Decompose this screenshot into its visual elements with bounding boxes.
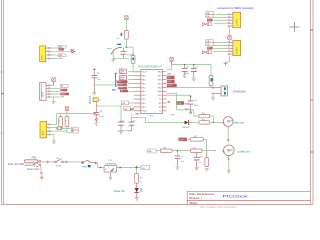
svg-text:1u: 1u bbox=[195, 70, 197, 72]
svg-text:Sheet: /: Sheet: / bbox=[189, 196, 202, 200]
pin row 11 bbox=[134, 110, 141, 112]
net label box ALM bbox=[71, 127, 78, 130]
wire OSCa to IC bbox=[128, 102, 134, 104]
svg-text:OSC: OSC bbox=[135, 113, 140, 115]
ground below C1 C2 bbox=[119, 131, 123, 134]
svg-text:DIG2: DIG2 bbox=[167, 81, 171, 83]
wire rail to R11 bbox=[66, 114, 68, 117]
inductor L1 bbox=[93, 98, 98, 102]
pin row 10 bbox=[134, 106, 141, 108]
ground below C6 bbox=[94, 123, 98, 126]
pin 2 of X2 bbox=[47, 127, 49, 129]
+5V cross bbox=[224, 62, 228, 66]
net label (dark) SEG2 bbox=[207, 47, 213, 50]
title block bbox=[187, 190, 310, 192]
pin 3 of LS1 bbox=[46, 90, 49, 92]
svg-text:VDD: VDD bbox=[157, 95, 162, 97]
wire C6 down bbox=[95, 115, 97, 119]
power flag PWR1 bbox=[228, 36, 231, 40]
rail corner down bbox=[210, 65, 212, 76]
svg-text:PICclock: PICclock bbox=[223, 194, 249, 198]
crystal Y1 box B bbox=[120, 76, 127, 80]
net label row A bbox=[117, 80, 128, 83]
dark net label MODE bbox=[176, 101, 184, 105]
wire F1 to reg bbox=[91, 162, 95, 164]
net label (dark) SEG1 bbox=[207, 19, 213, 22]
svg-text:connectors for SMD1 (example): connectors for SMD1 (example) bbox=[217, 6, 254, 10]
ground below C5 bbox=[92, 93, 96, 96]
svg-text:BZ+: BZ+ bbox=[61, 86, 64, 88]
pin row 5 bbox=[134, 86, 141, 88]
wire R11 bottom bbox=[66, 127, 68, 133]
svg-text:DIG1: DIG1 bbox=[167, 77, 171, 79]
svg-text:MODE: MODE bbox=[177, 103, 182, 105]
pin 1 of SV1 bbox=[46, 47, 49, 49]
svg-text:in: in bbox=[105, 169, 106, 171]
capacitor C7 bbox=[177, 151, 179, 156]
svg-text:to bell, out: to bell, out bbox=[238, 149, 250, 153]
resistor R5 bbox=[160, 149, 172, 152]
net arrow GND bbox=[72, 50, 75, 53]
wire B1 down bbox=[227, 126, 229, 128]
DC jack X1 bbox=[25, 160, 38, 163]
svg-text:o: o bbox=[108, 168, 109, 170]
ground below R12 bbox=[205, 168, 209, 171]
net label box OSCb bbox=[124, 107, 131, 111]
wire cap to crystal bbox=[94, 84, 118, 86]
wire R3 to corner bbox=[210, 115, 214, 117]
pin 5 of LS1 bbox=[46, 96, 49, 98]
gate wire bbox=[166, 87, 212, 89]
buzzer out B1 (circle) bbox=[223, 117, 233, 127]
pull-up rail wire bbox=[57, 113, 97, 115]
wire to R9 bbox=[136, 167, 138, 173]
svg-text:SW4: SW4 bbox=[59, 58, 62, 60]
sheet border frame bbox=[1, 0, 3, 205]
pin 3 of SV1 bbox=[46, 54, 49, 56]
wire R10 bottom bbox=[60, 127, 62, 129]
Q1 source pin bbox=[212, 92, 215, 95]
wire between headers bbox=[228, 28, 230, 36]
svg-text:File: Reference: File: Reference bbox=[189, 192, 215, 196]
jack ground bbox=[40, 166, 42, 168]
svg-text:rb: rb bbox=[120, 88, 122, 90]
pin row 7 bbox=[134, 94, 141, 96]
svg-text:reset: reset bbox=[107, 47, 112, 50]
connector LS1 (outlined header) bbox=[40, 83, 47, 101]
resistor R6 bbox=[190, 138, 203, 141]
wire OSCb to IC bbox=[130, 108, 134, 110]
net label box ALM2 bbox=[71, 130, 78, 133]
power flag PWR4 bbox=[170, 57, 173, 61]
wire pin2 row bbox=[50, 127, 57, 129]
net label box LD1 bbox=[206, 12, 213, 15]
via diamond 2 bbox=[189, 111, 191, 113]
wire label zone down bbox=[120, 105, 122, 122]
resistor R12 bbox=[206, 151, 208, 158]
net label BZC (dark wide) bbox=[60, 93, 69, 96]
svg-text:BZ-: BZ- bbox=[61, 90, 64, 92]
svg-text:Power ON: Power ON bbox=[114, 190, 125, 193]
svg-text:OS2: OS2 bbox=[124, 109, 127, 111]
pin row 1 bbox=[134, 71, 141, 73]
resistor R9 bbox=[135, 173, 139, 183]
svg-text:KA78M05B: KA78M05B bbox=[105, 162, 117, 165]
wire IC vss bend bbox=[131, 114, 133, 118]
frame tick marks bbox=[2, 93, 4, 95]
wire jack to S2 bbox=[41, 161, 55, 163]
capacitor C9 bbox=[193, 65, 195, 69]
pin row 3 bbox=[134, 79, 141, 81]
svg-text:o: o bbox=[155, 111, 156, 113]
pin 3 of X2 bbox=[47, 130, 49, 132]
ground below C7 bbox=[176, 167, 180, 170]
wire filter to IC nets bbox=[96, 105, 121, 107]
ground below D3 bbox=[135, 198, 139, 201]
svg-text:DISP2: DISP2 bbox=[237, 46, 239, 53]
wire C2 top bbox=[131, 118, 133, 122]
wire pin3 to label bbox=[67, 131, 71, 133]
ground below C9 bbox=[192, 78, 196, 81]
wire pin3 row bbox=[50, 130, 67, 132]
power flag PWR3 bbox=[65, 107, 68, 111]
svg-text:SW2: SW2 bbox=[59, 49, 63, 51]
connector X2 (aux header) bbox=[40, 122, 47, 138]
svg-text:gnd: gnd bbox=[71, 49, 74, 51]
net label SW2 (dark) bbox=[59, 48, 64, 51]
svg-text:LDB: LDB bbox=[206, 16, 209, 18]
svg-text:BTN: BTN bbox=[42, 55, 44, 60]
caps bottom wire bbox=[120, 125, 122, 131]
bowtie / net flag GN1 bbox=[203, 23, 209, 26]
svg-text:SENS: SENS bbox=[61, 93, 65, 95]
svg-text:P9D: P9D bbox=[32, 158, 37, 160]
svg-text:SDA: SDA bbox=[185, 102, 190, 105]
connector SV1 (buttons header) bbox=[40, 46, 46, 62]
svg-text:1u: 1u bbox=[199, 162, 201, 164]
net label box BZA bbox=[60, 84, 68, 87]
resistor R10 bbox=[59, 117, 63, 127]
capacitor C8 bbox=[184, 65, 186, 69]
crystal cap column C5 bbox=[93, 68, 96, 71]
capacitor C3 bbox=[123, 47, 125, 52]
svg-text:1N4148: 1N4148 bbox=[182, 127, 190, 129]
wire D4 to label bbox=[63, 128, 72, 130]
capacitor C2 bbox=[129, 121, 135, 123]
net label box +5V bbox=[141, 166, 150, 170]
wire LS1 to ground bbox=[53, 97, 55, 101]
diode D1 bbox=[185, 121, 189, 125]
reg output wire bbox=[117, 166, 141, 168]
pin 1 of LS1 bbox=[46, 84, 49, 86]
ground below X2 bbox=[52, 141, 56, 144]
reg ground pin bbox=[109, 172, 111, 177]
svg-text:LDB: LDB bbox=[206, 44, 209, 46]
fuse F1 bbox=[81, 161, 83, 163]
wire D1 to R4 bbox=[189, 121, 199, 123]
wire L1 down bbox=[95, 102, 97, 113]
net label box LD4 bbox=[206, 43, 213, 46]
wire pin1 up to rail bbox=[50, 123, 57, 125]
pin row 9 bbox=[134, 102, 141, 104]
wires IC left pins bbox=[128, 71, 134, 73]
pin row 4 bbox=[134, 83, 141, 85]
wire R8 to gate bbox=[210, 85, 212, 87]
svg-text:timer out: timer out bbox=[234, 120, 244, 124]
row MODE2 bbox=[178, 138, 187, 142]
net label box SW3 bbox=[58, 54, 66, 57]
wire row to C4 bbox=[166, 94, 190, 96]
svg-text:PIC16F628A-P: PIC16F628A-P bbox=[138, 64, 162, 68]
bell out B2 (circle) bbox=[224, 145, 235, 156]
net label box OSCa bbox=[122, 101, 129, 105]
svg-text:100n: 100n bbox=[194, 105, 198, 107]
pin row 6 bbox=[134, 90, 141, 92]
net label box SW1 bbox=[58, 45, 66, 48]
red dash bbox=[130, 109, 134, 111]
wire R6 corner down bbox=[203, 138, 206, 140]
net label row C bbox=[118, 87, 127, 90]
+5V rail bbox=[172, 64, 211, 66]
wire B2 down to ground bbox=[228, 156, 230, 159]
resistor R8 bbox=[209, 75, 213, 85]
wire loop bbox=[126, 46, 133, 48]
sheet centre crosshair bbox=[290, 22, 300, 32]
dark net labels right of IC bbox=[167, 76, 175, 79]
net label box LD2 bbox=[206, 15, 213, 18]
svg-text:MCLR: MCLR bbox=[142, 72, 148, 74]
wires to header bbox=[214, 13, 228, 15]
transistor Q1 bbox=[221, 86, 227, 96]
wires to header bbox=[214, 41, 228, 43]
capacitor C1 bbox=[118, 121, 124, 123]
pin 4 of LS1 bbox=[46, 93, 49, 95]
wire pin4 to ground bbox=[50, 134, 54, 136]
switch S2 bbox=[55, 161, 57, 163]
wire S2 to F1 bbox=[63, 161, 80, 163]
power flag PWR5 bbox=[125, 16, 128, 20]
power flag PWR2 bbox=[52, 78, 55, 82]
net label box LD3 bbox=[206, 40, 213, 43]
svg-text:Size: A4 Date: 2007-03-04 Re: Size: A4 Date: 2007-03-04 Rev: bbox=[200, 205, 237, 208]
svg-text:BZ1: BZ1 bbox=[40, 91, 44, 96]
svg-text:SPST: SPST bbox=[56, 166, 62, 168]
wires from LS1 bbox=[50, 84, 54, 86]
ground below S1 bbox=[112, 57, 114, 60]
pin row 8 bbox=[134, 98, 141, 100]
wire header2 down bbox=[228, 56, 230, 62]
connector J2 (display header) bbox=[233, 12, 241, 27]
net label row B bbox=[118, 83, 128, 86]
svg-text:DISP1: DISP1 bbox=[237, 18, 239, 25]
resistor R7 bbox=[190, 149, 202, 152]
svg-text:9 to 12 Vdc: 9 to 12 Vdc bbox=[8, 162, 25, 166]
pin row 2 bbox=[134, 75, 141, 77]
svg-text:Title:: Title: bbox=[189, 201, 198, 205]
svg-text:PIC: PIC bbox=[150, 115, 154, 117]
capacitor C4 bbox=[190, 95, 192, 101]
svg-text:OS1: OS1 bbox=[122, 103, 125, 105]
svg-text:o: o bbox=[144, 111, 145, 113]
capacitor C6 bbox=[93, 112, 99, 114]
blue bracket bbox=[115, 73, 117, 86]
via diamond bbox=[95, 119, 97, 121]
connector J3 (display header) bbox=[233, 40, 241, 55]
svg-text:10uF: 10uF bbox=[99, 116, 104, 118]
svg-text:ZVN4206A: ZVN4206A bbox=[233, 89, 246, 93]
wire R7 to B2 bbox=[202, 150, 212, 152]
ground below C10 bbox=[195, 167, 199, 170]
ground below Q1 bbox=[211, 98, 215, 101]
svg-text:PU: PU bbox=[112, 90, 116, 92]
wire R2 to IC bbox=[132, 47, 134, 52]
svg-text:SW3: SW3 bbox=[59, 55, 62, 57]
net label box SND bbox=[148, 149, 157, 153]
pin 2 of SV1 bbox=[46, 51, 49, 53]
svg-text:AUX: AUX bbox=[41, 130, 44, 135]
pin 4 of X2 bbox=[47, 134, 49, 136]
resistor R3 bbox=[199, 114, 210, 117]
svg-text:VCC+5: VCC+5 bbox=[89, 95, 92, 104]
svg-text:1k: 1k bbox=[140, 182, 142, 184]
jumper D4 bbox=[56, 127, 58, 129]
svg-text:DIG34: DIG34 bbox=[167, 85, 172, 87]
net label BZB (dark) bbox=[60, 89, 67, 92]
resistor R4 bbox=[199, 121, 210, 124]
pin 1 of X2 bbox=[47, 123, 49, 125]
capacitor C10 bbox=[196, 153, 198, 158]
wire R4 to T2 bbox=[210, 121, 222, 123]
resistor R1 bbox=[125, 30, 129, 39]
ground below C8 bbox=[183, 75, 187, 78]
no-connect x bbox=[168, 101, 170, 103]
push button S1 arc bbox=[112, 47, 122, 53]
resistor R2 bbox=[131, 55, 135, 63]
svg-text:Power Input: Power Input bbox=[27, 168, 40, 171]
svg-text:R1: R1 bbox=[117, 38, 119, 40]
pin 4 of SV1 bbox=[46, 58, 49, 60]
wire row6 down to R3 bbox=[166, 92, 176, 94]
net label row D bbox=[120, 90, 128, 92]
svg-text:10u: 10u bbox=[181, 161, 184, 163]
ground below LS1 bbox=[52, 101, 56, 104]
resistor R11 bbox=[65, 117, 69, 127]
wires from SV1 bbox=[50, 47, 59, 49]
wire rail to R10 bbox=[60, 114, 62, 117]
crystal Y1 box A bbox=[120, 69, 127, 73]
bowtie / net flag GN2 bbox=[203, 51, 209, 54]
pin 2 of LS1 bbox=[46, 87, 49, 89]
svg-text:MBR: MBR bbox=[82, 166, 87, 168]
